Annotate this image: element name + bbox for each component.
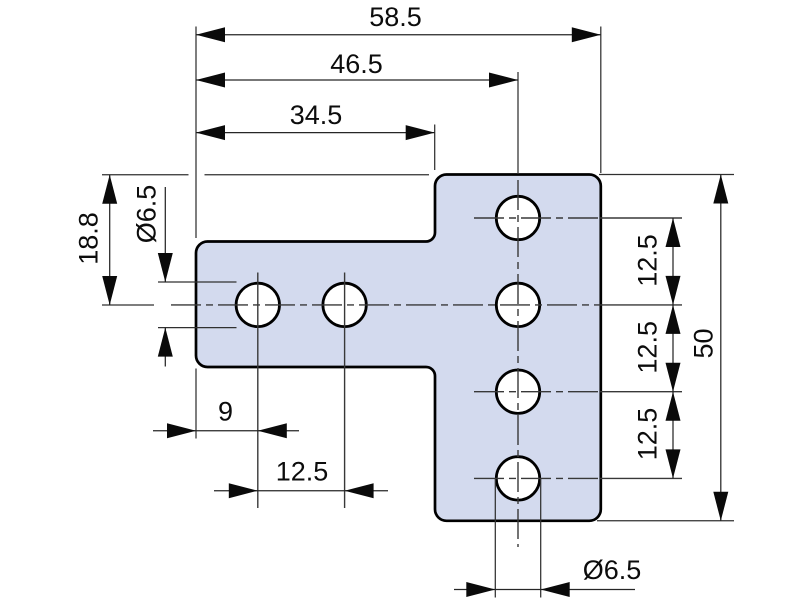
dimension 18.8 [74,175,118,305]
extension line column hole centers (x=517.7) [517,72,519,174]
extension line y=174.7 left segment [102,174,189,176]
centerline hole C3 horizontal [474,391,682,393]
svg-text:12.5: 12.5 [633,234,663,287]
svg-text:Ø6.5: Ø6.5 [583,555,642,585]
plate outline (T-shaped plate) [196,175,601,521]
centerline hole C1 horizontal [474,217,682,219]
dimension diameter 6.5 left [132,185,173,367]
hole C3 [496,370,539,413]
dimension 12.5 right span3 [633,392,681,479]
hole C2 [496,283,539,326]
svg-text:Ø6.5: Ø6.5 [132,185,162,244]
extension line hole C4 left tangent [494,479,496,598]
extension tick 18.8 bottom (row2 left) [102,304,154,306]
hole C4 [496,457,539,500]
centerline hole B vertical [344,273,346,509]
dimension 34.5 [196,100,435,140]
svg-text:12.5: 12.5 [633,321,663,374]
dimension diameter 6.5 bottom [454,555,641,597]
svg-text:12.5: 12.5 [276,456,329,486]
extension line bottom right (y=520.5) [597,520,734,522]
centerline hole C4 horizontal [474,477,682,479]
hole A [236,283,279,326]
extension line column left edge (x=434.7) [434,125,436,171]
centerline hole A vertical [257,273,259,509]
extension line hole C4 right tangent [540,479,542,598]
dimension 58.5 [196,2,601,43]
extension line left edge top (x=196) [195,27,197,239]
extension line hole A top tangent [158,281,237,283]
extension line right edge top (x=600) [600,27,602,174]
centerline column vertical dashed [517,180,519,547]
svg-text:18.8: 18.8 [74,212,104,265]
svg-text:50: 50 [689,328,719,358]
svg-text:58.5: 58.5 [369,2,422,32]
extension line y=174.7 right segment [205,174,430,176]
svg-text:9: 9 [218,397,233,427]
dimension 9 [153,397,299,439]
dimension 12.5 bottom [214,456,388,498]
extension line left edge bottom (x=196) [195,369,197,439]
extension line hole A bottom tangent [158,327,237,329]
svg-text:12.5: 12.5 [633,408,663,461]
extension line top right (y=174.5) [599,174,734,176]
dimension 12.5 right span1 [633,218,681,305]
dimension 46.5 [196,49,518,88]
svg-text:46.5: 46.5 [330,49,383,79]
svg-text:34.5: 34.5 [290,100,343,130]
hole B [323,283,366,326]
hole C1 [496,196,539,239]
centerline row2 horizontal (through arm holes and column hole 2) [171,304,682,306]
dimension 12.5 right span2 [633,305,681,392]
dimension 50 [689,175,729,521]
